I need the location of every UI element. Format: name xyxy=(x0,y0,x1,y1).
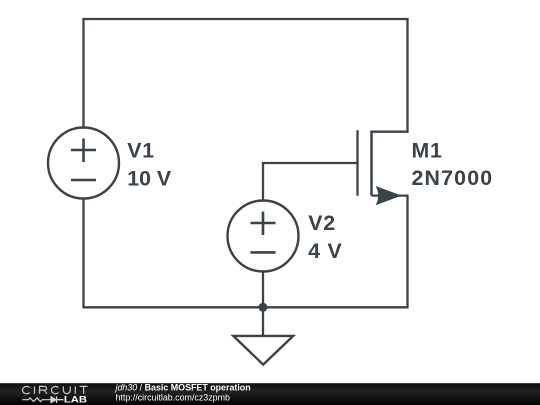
gate bar xyxy=(356,130,358,196)
ground xyxy=(233,307,293,364)
wire: V2 bottom stub to ground node xyxy=(262,272,264,308)
label M1 value xyxy=(412,139,494,191)
svg-text:http://circuitlab.com/cz3zpmb: http://circuitlab.com/cz3zpmb xyxy=(116,392,230,402)
logo CircuitLab wordmark CIRCUIT xyxy=(23,386,88,393)
transistor M1 (NMOS 2N7000) xyxy=(358,130,402,205)
node: junction dot at ground net xyxy=(259,303,268,312)
footer bar xyxy=(0,383,540,405)
source arrow xyxy=(376,186,402,205)
logo resistor squiggle xyxy=(22,398,51,402)
channel bar xyxy=(370,131,373,196)
svg-text:LAB: LAB xyxy=(64,394,87,405)
svg-text:2N7000: 2N7000 xyxy=(412,166,494,190)
footer credits xyxy=(115,382,251,402)
label V1 value xyxy=(127,139,172,191)
wire: gate lead from V2 top to M1 gate xyxy=(263,163,358,201)
voltage source V2 xyxy=(228,201,299,272)
wire: top rail from M1 drain up and across to V1 top xyxy=(84,19,408,132)
svg-text:4 V: 4 V xyxy=(308,239,342,263)
svg-text:V1: V1 xyxy=(127,139,155,163)
voltage source V1 xyxy=(48,128,119,199)
wire: bottom rail from V1 bottom to M1 source xyxy=(84,196,408,308)
logo diode xyxy=(51,397,56,403)
svg-text:jdh30 / Basic MOSFET operation: jdh30 / Basic MOSFET operation xyxy=(115,382,251,392)
label V2 value xyxy=(308,211,342,263)
svg-text:V2: V2 xyxy=(308,211,336,235)
svg-text:10 V: 10 V xyxy=(127,167,172,191)
svg-text:M1: M1 xyxy=(412,139,443,163)
